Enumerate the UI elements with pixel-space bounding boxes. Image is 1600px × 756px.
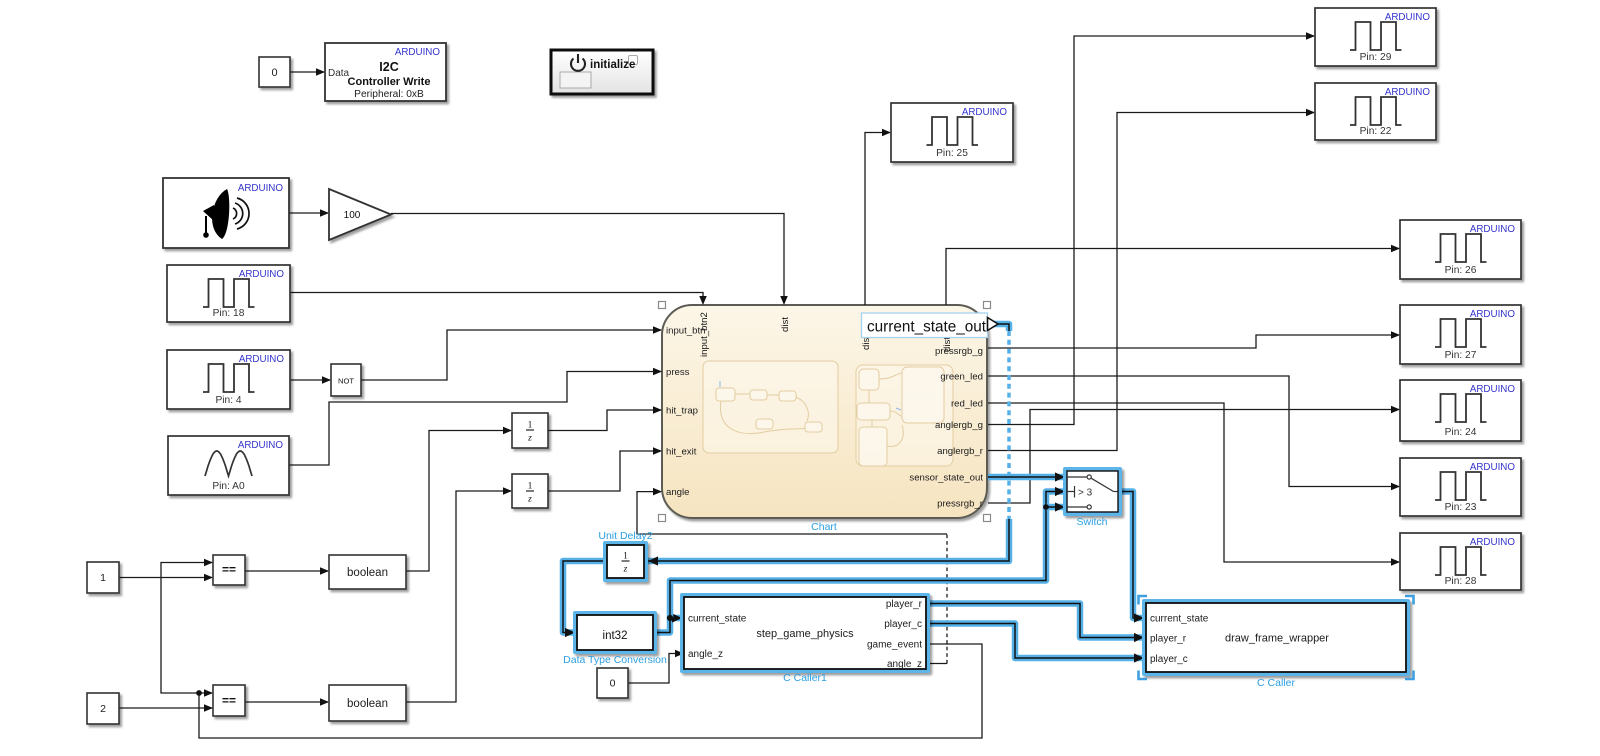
gain block 100 xyxy=(329,189,391,240)
svg-text:Pin: 28: Pin: 28 xyxy=(1445,576,1477,587)
data type conversion boolean 2 xyxy=(329,685,406,721)
svg-text:1: 1 xyxy=(528,482,533,492)
chart interior preview sketch xyxy=(703,361,953,466)
C Caller1 block step_game_physics (highlighted) xyxy=(680,593,930,673)
initialize subsystem block xyxy=(551,50,653,94)
svg-text:1: 1 xyxy=(623,552,628,562)
constant 2 xyxy=(87,693,119,724)
svg-text:anglergb_r: anglergb_r xyxy=(937,446,984,457)
svg-text:0: 0 xyxy=(271,67,277,79)
C Caller block draw_frame_wrapper (selected) xyxy=(1142,599,1410,676)
svg-text:==: == xyxy=(222,563,236,577)
wire anglergb_g to pin29 xyxy=(988,36,1314,425)
highlighted wire current_state_out to Unit Delay2 xyxy=(648,519,1009,566)
svg-text:> 3: > 3 xyxy=(1078,488,1093,499)
svg-text:green_led: green_led xyxy=(940,372,983,383)
svg-text:angle: angle xyxy=(666,487,689,498)
svg-text:Switch: Switch xyxy=(1077,516,1108,528)
svg-text:Pin: 29: Pin: 29 xyxy=(1360,52,1392,63)
wire pin4 to NOT xyxy=(290,379,330,381)
svg-text:input_btn2: input_btn2 xyxy=(699,312,710,357)
wire const2 to relational2 in2 xyxy=(119,707,212,709)
wire game_event branch to relational1 in1 xyxy=(161,563,212,694)
arduino digital output Pin 26 xyxy=(1400,220,1521,279)
constant 1 xyxy=(87,562,119,593)
Stateflow Chart block xyxy=(662,305,987,518)
svg-text:C Caller: C Caller xyxy=(1257,677,1295,689)
svg-text:2: 2 xyxy=(100,703,106,715)
wire NOT to chart input_btn xyxy=(361,330,661,380)
arduino digital input Pin 18 xyxy=(167,265,290,322)
svg-text:Chart: Chart xyxy=(811,521,837,533)
svg-text:press: press xyxy=(666,367,690,378)
svg-text:int32: int32 xyxy=(603,630,628,642)
highlighted wire C Caller1 player_r to C Caller xyxy=(926,604,1144,643)
svg-text:anglergb_g: anglergb_g xyxy=(935,420,983,431)
arduino digital output Pin 27 xyxy=(1400,305,1521,364)
power icon xyxy=(571,59,585,71)
Unit Delay2 block (highlighted) xyxy=(603,541,648,582)
svg-text:Controller Write: Controller Write xyxy=(348,76,431,88)
svg-text:current_state: current_state xyxy=(688,614,747,625)
svg-text:angle_z: angle_z xyxy=(887,659,922,670)
chart output port arrow current_state_out xyxy=(988,318,999,331)
wire ultrasonic to gain xyxy=(289,212,328,214)
wire junction xyxy=(667,615,673,621)
svg-text:player_c: player_c xyxy=(884,619,922,630)
wire relational1 to boolean1 xyxy=(245,570,328,572)
data type conversion boolean 1 xyxy=(329,555,406,589)
constant 0 (I2C data) xyxy=(259,57,290,87)
arduino digital input Pin 4 xyxy=(167,350,290,409)
svg-text:C Caller1: C Caller1 xyxy=(783,672,827,684)
svg-text:Pin: 25: Pin: 25 xyxy=(936,148,968,159)
svg-text:player_r: player_r xyxy=(886,599,923,610)
wire unit delay b to chart hit_exit xyxy=(548,451,661,491)
svg-text:current_state_out: current_state_out xyxy=(867,319,987,336)
wire const0 to I2C Data xyxy=(290,71,324,73)
svg-text:sensor_state_out: sensor_state_out xyxy=(909,473,983,484)
svg-text:100: 100 xyxy=(344,210,361,221)
signal label box current_state_out xyxy=(862,313,988,338)
relational operator 1 (==) xyxy=(213,555,245,585)
svg-text:dist: dist xyxy=(780,317,791,332)
svg-text:NOT: NOT xyxy=(338,377,354,386)
C Caller selection corner brackets xyxy=(1139,596,1414,679)
svg-text:z: z xyxy=(527,434,532,444)
int32 Data Type Conversion block (highlighted) xyxy=(573,611,657,654)
wire unit delay a to chart hit_trap xyxy=(548,410,661,431)
svg-text:red_led: red_led xyxy=(951,399,983,410)
highlighted wire int32 to C Caller1 current_state xyxy=(653,613,682,632)
svg-text:step_game_physics: step_game_physics xyxy=(756,628,854,640)
svg-text:ARDUINO: ARDUINO xyxy=(395,47,441,58)
ultrasonic sensor block xyxy=(163,178,289,248)
Switch block (highlighted) xyxy=(1063,467,1122,516)
svg-text:Pin: 22: Pin: 22 xyxy=(1360,126,1392,137)
svg-text:ARDUINO: ARDUINO xyxy=(238,183,284,194)
I2C Controller Write block xyxy=(325,43,446,101)
wire game_event feedback xyxy=(199,644,982,738)
svg-text:ARDUINO: ARDUINO xyxy=(238,440,284,451)
unit delay a xyxy=(512,413,548,448)
svg-text:Pin: 26: Pin: 26 xyxy=(1445,265,1477,276)
wire angle_z feedback solid part xyxy=(926,663,947,665)
arduino digital output Pin 25 xyxy=(891,103,1013,162)
arduino digital output Pin 29 xyxy=(1315,8,1436,66)
highlighted wire C Caller1 player_c to C Caller xyxy=(926,624,1144,663)
wire chart dist_r to pin26 xyxy=(946,249,1399,306)
ultrasonic dish icon xyxy=(203,189,229,239)
highlighted wire branch to Switch in2 xyxy=(670,487,1065,618)
svg-text:z: z xyxy=(623,565,628,575)
switch symbol xyxy=(1067,475,1118,509)
wire boolean1 to unit delay a xyxy=(406,431,511,572)
chart selection handles xyxy=(659,302,666,309)
wire pressrgb_g to pin27 xyxy=(988,335,1399,348)
svg-text:boolean: boolean xyxy=(347,567,388,579)
svg-text:1: 1 xyxy=(528,421,533,431)
constant 0 (angle_z) xyxy=(597,668,628,698)
svg-text:Data Type Conversion: Data Type Conversion xyxy=(563,654,667,666)
relational operator 2 (==) xyxy=(213,685,245,716)
svg-text:Pin: 18: Pin: 18 xyxy=(213,308,245,319)
svg-text:draw_frame_wrapper: draw_frame_wrapper xyxy=(1225,633,1329,645)
highlighted wire sensor_state_out to Switch in1 xyxy=(988,472,1065,481)
svg-text:Data: Data xyxy=(328,68,350,79)
wire relational2 to boolean2 xyxy=(245,701,328,703)
logical operator NOT xyxy=(331,364,361,396)
svg-text:boolean: boolean xyxy=(347,698,388,710)
svg-text:angle_z: angle_z xyxy=(688,649,723,660)
wire gain to chart dist (top) xyxy=(391,214,784,304)
svg-text:Pin: 4: Pin: 4 xyxy=(215,395,241,406)
highlighted wire current_state_out stub xyxy=(988,324,1009,331)
wire const0b to C Caller1 angle_z xyxy=(628,654,683,684)
svg-text:game_event: game_event xyxy=(867,640,922,651)
svg-text:hit_trap: hit_trap xyxy=(666,406,698,417)
svg-text:==: == xyxy=(222,694,236,708)
arduino digital output Pin 23 xyxy=(1400,458,1521,516)
svg-text:0: 0 xyxy=(610,678,616,690)
wire angle_z feedback dashed riser xyxy=(946,534,948,664)
wire const1 to relational1 in2 xyxy=(119,577,212,579)
svg-text:Unit Delay2: Unit Delay2 xyxy=(598,530,652,542)
svg-text:Pin: A0: Pin: A0 xyxy=(212,481,245,492)
wire pinA0 to chart press xyxy=(289,372,661,466)
wire angle_z feedback to chart angle xyxy=(637,492,947,534)
highlighted wire Unit Delay2 to int32 xyxy=(563,561,607,637)
wire red_led to pin28 xyxy=(988,403,1399,562)
arduino analog input Pin A0 xyxy=(168,436,289,495)
svg-text:z: z xyxy=(527,495,532,505)
svg-text:player_r: player_r xyxy=(1150,634,1187,645)
highlighted wire current_state_out dashed riser xyxy=(1007,331,1011,519)
arduino digital output Pin 24 xyxy=(1400,380,1521,441)
arduino digital output Pin 22 xyxy=(1315,83,1436,140)
wire green_led to pin23 xyxy=(988,376,1399,487)
wire chart dist_g to pin25 xyxy=(865,133,890,306)
svg-text:Pin: 23: Pin: 23 xyxy=(1445,502,1477,513)
svg-text:current_state: current_state xyxy=(1150,614,1209,625)
wire pressrgb_r to pin24 xyxy=(988,410,1399,504)
wire boolean2 to unit delay b xyxy=(406,491,511,702)
wire anglergb_r to pin22 xyxy=(988,113,1314,451)
wire pin18 to chart input_btn2 (top) xyxy=(290,293,703,304)
wire junction xyxy=(196,690,202,696)
svg-text:Peripheral: 0xB: Peripheral: 0xB xyxy=(354,89,424,100)
svg-text:hit_exit: hit_exit xyxy=(666,447,697,458)
wire junction xyxy=(1043,504,1049,510)
svg-text:Pin: 27: Pin: 27 xyxy=(1445,350,1477,361)
unit delay b xyxy=(512,474,548,508)
svg-text:I2C: I2C xyxy=(379,60,398,74)
svg-text:player_c: player_c xyxy=(1150,654,1188,665)
svg-text:initialize: initialize xyxy=(590,59,635,71)
svg-text:pressrgb_r: pressrgb_r xyxy=(937,499,984,510)
svg-text:1: 1 xyxy=(100,572,106,584)
arduino digital output Pin 28 xyxy=(1400,533,1521,590)
highlighted wire branch to Switch in3 xyxy=(1046,502,1065,511)
highlighted wire Switch to C Caller current_state xyxy=(1118,492,1144,623)
svg-text:Pin: 24: Pin: 24 xyxy=(1445,427,1477,438)
